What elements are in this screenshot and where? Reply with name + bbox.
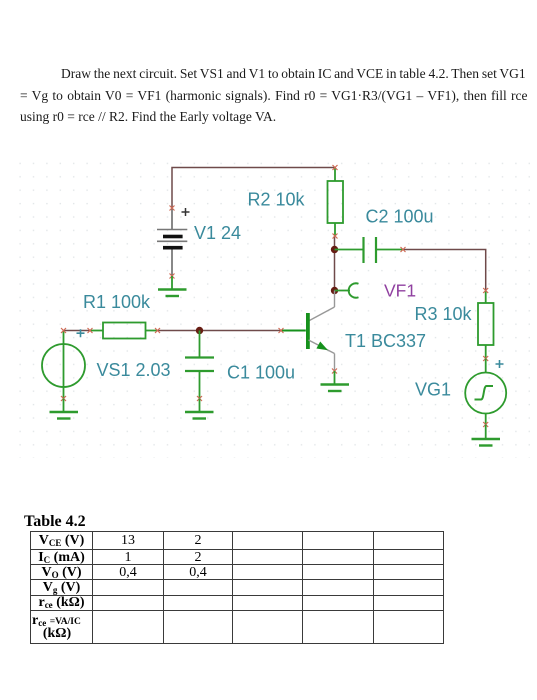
resistor R1 (88, 323, 161, 339)
node B junction dot (331, 287, 338, 294)
table title (24, 513, 86, 531)
resistor R2 (328, 165, 344, 239)
transistor T1 (279, 291, 338, 374)
ground under VG1 (472, 425, 501, 446)
svg-text:VS1 2.03: VS1 2.03 (97, 360, 171, 380)
source VS1 (42, 328, 85, 401)
ground under C1 (185, 399, 214, 419)
svg-text:R3 10k: R3 10k (415, 304, 473, 324)
resistor R3 (478, 288, 494, 361)
capacitor C2 (335, 237, 406, 263)
svg-text:R2 10k: R2 10k (248, 190, 306, 210)
paragraph line 2 (20, 88, 528, 104)
svg-text:V1 24: V1 24 (194, 223, 241, 243)
probe VF1 (335, 283, 359, 297)
svg-text:T1 BC337: T1 BC337 (345, 331, 426, 351)
wire top horizontal V1 to R2 (172, 168, 335, 209)
wire node C to T1 base (200, 330, 282, 332)
source VG1 (465, 359, 506, 428)
wire VS1 corner to R1 left (64, 330, 91, 332)
ground under V1 (158, 276, 187, 296)
node A junction dot (331, 246, 338, 253)
ground under T1 emitter (321, 371, 350, 391)
wire C2 right to R3 top (403, 250, 486, 291)
capacitor C1 (185, 331, 214, 402)
svg-text:C2 100u: C2 100u (366, 207, 434, 227)
svg-text:C1 100u: C1 100u (227, 363, 295, 383)
table 4.2 (30, 531, 444, 644)
paragraph line 3 (20, 109, 276, 125)
node C junction dot (196, 327, 203, 334)
svg-text:R1 100k: R1 100k (83, 292, 151, 312)
battery V1 (157, 206, 190, 279)
paragraph line 1 (61, 66, 526, 82)
wire R1 right to node C (158, 330, 200, 332)
svg-text:VF1: VF1 (384, 281, 416, 301)
ground under VS1 (50, 399, 79, 419)
svg-text:VG1: VG1 (415, 380, 451, 400)
wire node A to node B (334, 250, 336, 291)
wire R2 bottom to node A (334, 236, 336, 250)
